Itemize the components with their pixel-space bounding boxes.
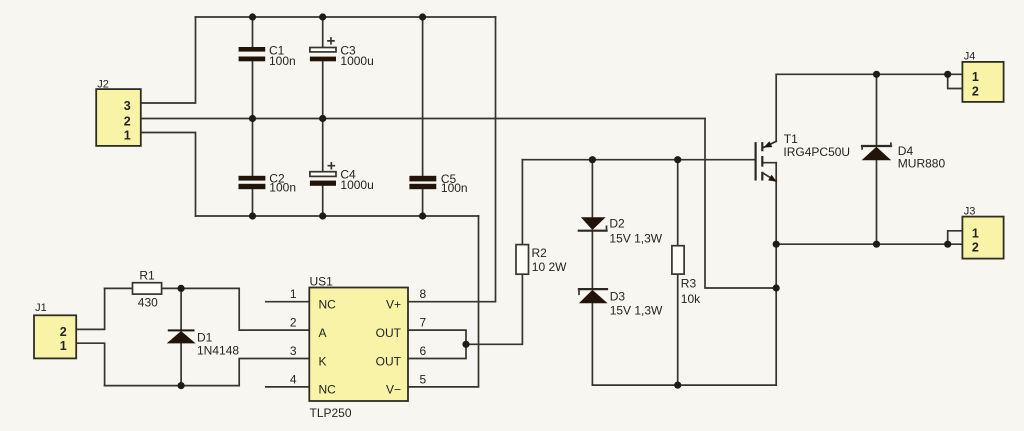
wire emitter vertical xyxy=(775,163,777,385)
svg-text:J4: J4 xyxy=(964,50,976,62)
wire bottom right rail xyxy=(592,384,776,386)
diode D1 xyxy=(167,329,240,357)
node bottom rail R3 xyxy=(674,382,681,389)
wire C2 column xyxy=(252,119,254,217)
capacitor C4 xyxy=(310,163,374,192)
zener diode D2 xyxy=(579,217,663,246)
wire R3 column bottom xyxy=(677,274,679,385)
op-amp U1 : optocoupler US1 TLP250 xyxy=(309,275,408,421)
capacitor C3 xyxy=(310,38,374,68)
node top rail C1 xyxy=(249,13,256,20)
wire emitter rail to J3 pin2 xyxy=(776,243,962,245)
wire R3 column top xyxy=(677,160,679,246)
connector J1 xyxy=(34,302,76,358)
node mid rail C1 xyxy=(249,115,256,122)
wire OUT junction to R2 bottom xyxy=(466,274,522,344)
resistor R2 xyxy=(516,245,567,275)
svg-text:A: A xyxy=(319,326,327,340)
wire C4 column xyxy=(322,119,324,217)
svg-text:V+: V+ xyxy=(386,298,401,312)
node D1 cathode xyxy=(178,382,185,389)
svg-text:K: K xyxy=(319,354,327,368)
svg-text:R2: R2 xyxy=(532,246,548,260)
svg-text:OUT: OUT xyxy=(376,326,402,340)
svg-text:D4: D4 xyxy=(898,144,914,158)
wire mid rail descent to emitter xyxy=(705,119,776,289)
svg-text:T1: T1 xyxy=(784,132,798,146)
node D1 anode xyxy=(178,285,185,292)
wire T1 middle tap xyxy=(762,162,776,164)
wire US1 pin4 stub xyxy=(266,386,310,388)
wire R1 left lead xyxy=(105,287,133,289)
wire zener column middle xyxy=(591,231,593,288)
wire zener column top xyxy=(591,160,593,218)
wire J1 pin2 riser xyxy=(76,288,104,329)
wire J2 pin3 to top rail xyxy=(141,17,196,103)
svg-text:7: 7 xyxy=(420,316,427,330)
wire R2 top lead xyxy=(521,160,523,245)
wire C3 column xyxy=(322,17,324,119)
svg-text:1N4148: 1N4148 xyxy=(197,343,239,357)
connector J2 xyxy=(96,79,141,146)
svg-text:1000u: 1000u xyxy=(340,178,373,192)
svg-text:V−: V− xyxy=(386,383,401,397)
wire top rail xyxy=(196,16,496,18)
svg-text:6: 6 xyxy=(420,344,427,358)
wire US1 pin1 stub xyxy=(266,301,310,303)
connector J4 xyxy=(962,50,1003,102)
svg-text:D2: D2 xyxy=(609,217,625,231)
wire bottom rail xyxy=(196,215,479,217)
svg-text:430: 430 xyxy=(138,295,158,309)
svg-text:2: 2 xyxy=(124,114,131,128)
wire D1 column xyxy=(180,288,182,385)
svg-text:R1: R1 xyxy=(139,269,155,283)
wire C1 column xyxy=(252,17,254,119)
svg-text:3: 3 xyxy=(290,344,297,358)
wire collector rail to J4 pin1 xyxy=(776,73,962,75)
capacitor C2 xyxy=(239,172,297,195)
svg-text:2: 2 xyxy=(60,325,67,339)
svg-text:IRG4PC50U: IRG4PC50U xyxy=(783,145,850,159)
wire OUT pins loop xyxy=(408,330,466,358)
svg-text:TLP250: TLP250 xyxy=(310,406,352,420)
capacitor C5 xyxy=(409,172,467,195)
wire J2 pin1 to bottom rail xyxy=(141,133,196,217)
svg-text:NC: NC xyxy=(319,298,337,312)
svg-text:J2: J2 xyxy=(97,79,109,91)
svg-text:MUR880: MUR880 xyxy=(898,157,946,171)
svg-text:J1: J1 xyxy=(35,302,47,314)
svg-text:10 2W: 10 2W xyxy=(532,260,567,274)
svg-text:1: 1 xyxy=(972,227,979,241)
svg-text:10k: 10k xyxy=(681,292,701,306)
svg-text:2: 2 xyxy=(290,316,297,330)
svg-text:D3: D3 xyxy=(610,289,626,303)
node OUT junction xyxy=(462,341,469,348)
node bottom rail C2 xyxy=(249,212,256,219)
wire mid rail from J2 pin2 xyxy=(141,118,705,120)
svg-text:R3: R3 xyxy=(681,277,697,291)
svg-text:2: 2 xyxy=(972,240,979,254)
node collector rail J4 xyxy=(944,71,951,78)
wire J4 pin2 link xyxy=(948,74,963,88)
wire C5 column xyxy=(422,17,424,216)
capacitor C1 xyxy=(239,43,296,67)
svg-text:100n: 100n xyxy=(269,181,296,195)
wire R1 right lead to US1 pin2 xyxy=(162,288,310,330)
svg-text:OUT: OUT xyxy=(376,354,402,368)
node bottom rail C5 xyxy=(419,212,426,219)
svg-text:1: 1 xyxy=(124,128,131,142)
zener diode D3 xyxy=(579,289,663,318)
wire gate rail xyxy=(522,159,755,161)
svg-text:15V 1,3W: 15V 1,3W xyxy=(609,231,662,245)
node top rail C3 xyxy=(319,13,326,20)
wire bottom rail to US1 pin5 xyxy=(408,216,479,387)
diode D4 xyxy=(862,143,946,171)
node emitter rail start xyxy=(773,241,780,248)
wire J3 pin1 link xyxy=(948,231,963,244)
connector J3 xyxy=(962,206,1003,259)
wire zener column bottom xyxy=(591,303,593,385)
svg-text:3: 3 xyxy=(124,99,131,113)
node bottom rail C4 xyxy=(319,212,326,219)
node emitter rail D4 xyxy=(873,241,880,248)
svg-text:1: 1 xyxy=(972,70,979,84)
svg-text:1: 1 xyxy=(60,339,67,353)
svg-text:4: 4 xyxy=(290,372,297,386)
node top rail C5 xyxy=(419,13,426,20)
node emitter rail J3 xyxy=(944,241,951,248)
svg-text:100n: 100n xyxy=(269,54,296,68)
resistor R1 xyxy=(133,269,162,310)
svg-text:J3: J3 xyxy=(964,206,976,218)
svg-text:100n: 100n xyxy=(441,181,468,195)
wire collector riser xyxy=(775,74,777,141)
wire V+ riser to US1 pin8 xyxy=(408,17,496,302)
svg-text:15V 1,3W: 15V 1,3W xyxy=(610,304,663,318)
node collector rail D4 xyxy=(873,71,880,78)
node mid rail C3 xyxy=(319,115,326,122)
svg-text:1000u: 1000u xyxy=(340,54,373,68)
resistor R3 xyxy=(672,246,701,306)
node emitter mid link xyxy=(773,284,780,291)
svg-text:5: 5 xyxy=(420,372,427,386)
svg-text:8: 8 xyxy=(420,287,427,301)
transistor Q1 : IGBT T1 xyxy=(756,132,851,182)
wire J1 pin1 drop xyxy=(76,343,104,385)
wire cathode path to US1 pin3 xyxy=(105,359,310,386)
svg-text:NC: NC xyxy=(319,383,337,397)
svg-text:US1: US1 xyxy=(310,275,334,289)
svg-text:1: 1 xyxy=(290,287,297,301)
node gate rail D2 xyxy=(589,156,596,163)
node gate rail R3 xyxy=(674,156,681,163)
wire D4 column xyxy=(876,74,878,244)
svg-text:2: 2 xyxy=(972,84,979,98)
